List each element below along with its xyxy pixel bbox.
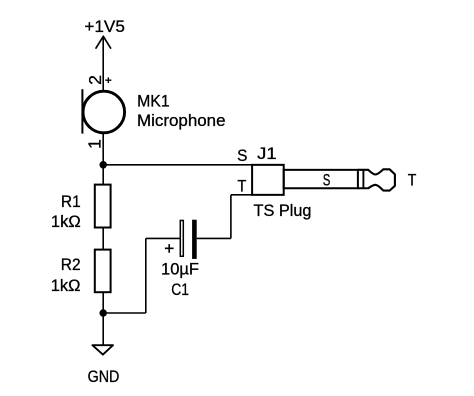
svg-text:Microphone: Microphone	[137, 111, 226, 130]
connector tip	[358, 169, 395, 190]
wire C1 to corner	[197, 237, 231, 239]
wire R2 to node B	[102, 292, 104, 313]
wire node A to J1 pin S	[103, 164, 252, 166]
pin number 1	[85, 139, 105, 149]
capacitor C1 positive plate	[180, 220, 183, 256]
svg-text:2: 2	[85, 75, 105, 85]
polarity plus at pin 2	[105, 77, 111, 83]
wire R1 to R2	[102, 228, 104, 250]
svg-text:S: S	[323, 170, 331, 189]
svg-text:C1: C1	[171, 280, 189, 299]
svg-text:1kΩ: 1kΩ	[51, 212, 81, 231]
svg-text:T: T	[237, 177, 246, 196]
polarity plus of C1	[165, 244, 174, 253]
svg-text:1kΩ: 1kΩ	[51, 276, 81, 295]
wire to J1 pin T	[231, 194, 252, 196]
capacitor C1 negative plate	[192, 220, 197, 259]
svg-text:R1: R1	[61, 192, 81, 211]
pin number 2	[85, 75, 105, 85]
ground symbol	[92, 345, 113, 354]
svg-text:J1: J1	[257, 144, 277, 163]
connector J1 body box	[252, 165, 284, 195]
svg-text:TS Plug: TS Plug	[254, 202, 312, 220]
wire from +1V5 to microphone pin 2	[102, 36, 104, 90]
svg-text:MK1: MK1	[137, 91, 170, 110]
wire node B to C1 (horizontal)	[103, 312, 146, 314]
svg-text:R2: R2	[61, 255, 81, 274]
power flag arrow	[96, 36, 111, 48]
resistor R1	[95, 185, 111, 228]
wire microphone pin 1 to node A	[102, 134, 104, 165]
svg-text:T: T	[408, 170, 417, 189]
junction node A	[99, 161, 107, 169]
wire node B to ground	[102, 313, 104, 345]
wire up to C1 level	[145, 238, 147, 313]
svg-text:+1V5: +1V5	[84, 17, 125, 36]
junction node B	[99, 309, 107, 317]
insulator ring line	[362, 170, 364, 188]
wire node A to R1	[102, 165, 104, 185]
connector sleeve barrel	[284, 170, 358, 188]
wire to C1 positive plate	[146, 237, 180, 239]
svg-text:GND: GND	[88, 367, 120, 386]
resistor R2	[95, 250, 111, 293]
svg-text:S: S	[237, 146, 247, 165]
svg-text:10µF: 10µF	[161, 260, 199, 279]
svg-text:1: 1	[85, 139, 105, 149]
microphone diaphragm line	[81, 89, 83, 133]
wire up to J1 pin T	[230, 195, 232, 239]
microphone MK1 body circle	[83, 91, 125, 133]
